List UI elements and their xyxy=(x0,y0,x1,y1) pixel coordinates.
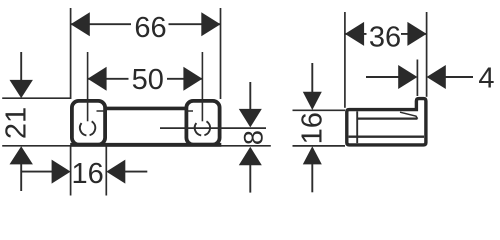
extension line 8 top xyxy=(160,127,266,129)
profile outline with lip xyxy=(347,99,426,145)
bottom long extension line (21 / 8 shared) xyxy=(2,145,271,147)
arrow 36 left xyxy=(345,22,364,46)
extension line 66 left xyxy=(70,8,72,99)
arrow 8 bottom stem xyxy=(249,165,251,193)
dimension line 16 left stem xyxy=(21,171,54,173)
arrow 21 bottom xyxy=(10,146,33,164)
arrow 8 down xyxy=(239,109,262,128)
svg-text:21: 21 xyxy=(1,107,33,139)
extension line 16 side bottom xyxy=(293,145,346,147)
extension line 16 side top xyxy=(293,109,346,111)
rail inner bottom edge xyxy=(349,136,424,138)
svg-text:16: 16 xyxy=(71,158,103,190)
bar bottom edge (merged with hook bottoms) xyxy=(70,143,221,147)
arrow 50 left xyxy=(88,67,107,91)
extension line 21 top xyxy=(2,97,70,99)
extension centerline 50 right xyxy=(201,52,203,121)
arrow 8 top stem xyxy=(249,82,251,111)
dimension line 50 left segment xyxy=(88,78,129,80)
dimension line 66 left segment xyxy=(71,23,131,25)
dimension line 36 right segment xyxy=(401,33,427,35)
svg-text:50: 50 xyxy=(132,64,164,96)
arrow 50 right xyxy=(183,67,202,91)
arrow 21 bottom stem xyxy=(20,164,22,191)
plate inner edge (vertical) xyxy=(356,111,358,143)
dimension line 36 left segment xyxy=(345,33,367,35)
arrow 21 top xyxy=(10,80,33,98)
arrow 16 pointing right xyxy=(52,160,71,184)
arrow 4 pointing right xyxy=(398,65,417,89)
arrow 16 side up xyxy=(303,146,322,164)
arrow 16 side top stem xyxy=(311,63,313,93)
svg-text:16: 16 xyxy=(296,112,328,144)
arrow 4 pointing left xyxy=(427,65,446,89)
svg-text:66: 66 xyxy=(134,12,166,44)
arrow 16 pointing left xyxy=(106,160,125,184)
bar top edge stub left (thin) xyxy=(97,110,106,112)
screw hole dashed circle left xyxy=(80,121,95,135)
screw hole dashed circle right xyxy=(195,121,210,135)
extension line 66 right xyxy=(220,8,222,99)
extension line 16 left (below hook) xyxy=(70,146,72,196)
extension line 16 right (below hook) xyxy=(105,146,107,196)
arrow 16 side bottom stem xyxy=(311,164,313,193)
arrow 16 side down xyxy=(303,92,322,110)
svg-text:4: 4 xyxy=(478,62,494,94)
dimension line 16 right stem xyxy=(124,171,147,173)
bar top edge stub right (thin) xyxy=(186,110,193,112)
rail inner top edge xyxy=(357,117,417,119)
extension centerline 50 left xyxy=(87,52,89,121)
lip inner chamfer diagonal xyxy=(400,112,418,119)
extension line 36/4 right xyxy=(426,12,428,97)
arrow 8 up xyxy=(239,147,262,166)
svg-text:36: 36 xyxy=(369,22,401,54)
extension line 4 left xyxy=(416,60,418,97)
dimension line 4 left stem xyxy=(366,76,401,78)
hook plate right xyxy=(186,101,219,145)
arrow 21 top stem xyxy=(20,52,22,81)
arrow 36 right xyxy=(407,22,426,46)
extension line 36 left xyxy=(344,12,346,108)
arrow 66 right xyxy=(201,12,220,36)
dimension line 4 right stem xyxy=(444,76,473,78)
bar top edge xyxy=(105,107,187,111)
hook plate left xyxy=(72,101,105,145)
arrow 66 left xyxy=(71,12,90,36)
dimension line 50 right segment xyxy=(167,78,202,80)
svg-text:8: 8 xyxy=(238,130,268,145)
dimension line 66 right segment xyxy=(169,23,221,25)
